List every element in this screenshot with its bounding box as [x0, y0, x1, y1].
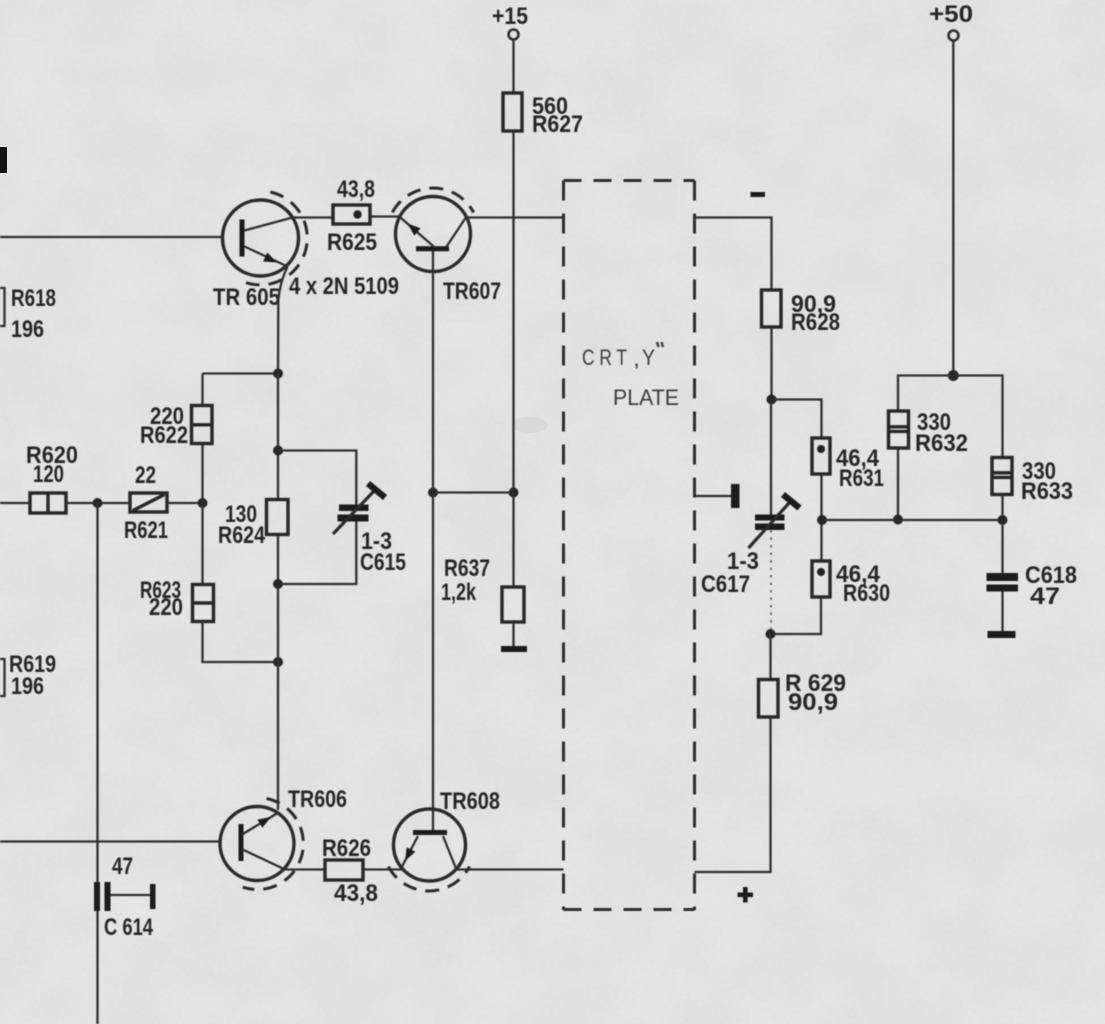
svg-text:C R T: C R T	[582, 345, 627, 370]
wire R620 to R621	[66, 502, 130, 504]
transistor TR605	[213, 192, 307, 311]
wire R630 bottom to node 634	[766, 597, 822, 639]
node +15 supply terminal	[492, 3, 528, 40]
svg-text:+15: +15	[492, 3, 528, 30]
wire TR608 to CRT box bottom	[456, 868, 564, 870]
transistor TR606	[220, 786, 347, 890]
resistor R623 220	[140, 577, 214, 622]
wire R632 to node row520	[893, 448, 903, 525]
capacitor C618 47	[987, 562, 1078, 610]
svg-text:TR 605: TR 605	[213, 284, 280, 311]
wire TR606 emitter to R626	[284, 868, 325, 870]
svg-text:43,8: 43,8	[337, 176, 375, 203]
svg-text:R621: R621	[124, 517, 168, 544]
resistor R633 330	[992, 458, 1073, 506]
plate tap bar inside box row	[695, 484, 740, 508]
svg-text:R632: R632	[915, 430, 968, 457]
node junction at x97	[93, 498, 103, 508]
svg-text:R618: R618	[11, 285, 56, 312]
scan artifact blob at left edge	[0, 147, 7, 173]
wire C617 down faint	[770, 530, 772, 634]
svg-text:R633: R633	[1021, 478, 1073, 505]
resistor R630 46,4	[812, 561, 890, 607]
svg-text:47: 47	[1030, 583, 1060, 610]
ground below C618	[988, 631, 1016, 638]
node junction R627/R637/TR607 link	[428, 488, 519, 498]
wire R631 to node row520	[817, 474, 827, 561]
svg-text:TR608: TR608	[440, 788, 500, 815]
svg-text:R637: R637	[444, 555, 490, 582]
wire node x97 down to bottom edge	[96, 503, 98, 1024]
svg-text:TR606: TR606	[288, 786, 347, 813]
resistor R632 330	[889, 409, 969, 457]
capacitor C617 1-3 trimmer	[701, 495, 800, 599]
wire R623 bottom to main vertical	[203, 622, 284, 668]
wire C615 branch	[278, 451, 356, 585]
wire node to R637	[512, 493, 514, 588]
wire top row to R632 and R633	[898, 376, 1003, 458]
capacitor C614 47	[94, 853, 156, 941]
resistor R625 43,8	[327, 176, 377, 256]
resistor R631 46,4	[812, 438, 884, 492]
minus polarity mark	[751, 192, 766, 197]
transistor TR607	[392, 188, 501, 305]
svg-text:4 x 2N 5109: 4 x 2N 5109	[289, 273, 399, 300]
svg-text:C617: C617	[701, 571, 750, 598]
resistor R619 cut off at edge	[0, 651, 56, 700]
CRT Y plate dashed box	[564, 181, 695, 911]
resistor R622 220	[140, 403, 212, 449]
svg-text:TR607: TR607	[443, 278, 501, 305]
wire CRT box to R628	[695, 218, 772, 291]
svg-text:R626: R626	[322, 835, 371, 862]
svg-text:,: ,	[633, 346, 640, 371]
wire R629 to CRT box bottom right	[695, 717, 771, 872]
wire TR605 emitter down	[278, 267, 288, 374]
resistor R628 90,9	[762, 290, 841, 336]
wire C618 to ground	[1001, 592, 1003, 632]
svg-text:120: 120	[33, 461, 64, 488]
wire R637 to ground	[512, 622, 514, 646]
wire node to R629	[769, 634, 771, 680]
resistor R621 22 variable	[124, 462, 168, 544]
resistor R627 560	[503, 93, 583, 138]
wire TR605 collector to R625	[293, 216, 334, 218]
svg-text:R630: R630	[843, 580, 890, 607]
svg-text:220: 220	[149, 594, 183, 621]
label CRT Y PLATE	[582, 342, 679, 410]
svg-text:1,2k: 1,2k	[441, 579, 476, 606]
wire R625 to TR607	[370, 215, 400, 217]
svg-text:47: 47	[112, 853, 133, 880]
resistor R629 90,9	[759, 670, 847, 717]
wire R621 to node x202	[167, 498, 208, 508]
plus polarity mark	[738, 887, 754, 903]
resistor R624 130	[218, 500, 288, 550]
wire input to TR605 base	[0, 236, 223, 238]
wire input row to R620	[0, 502, 30, 504]
svg-text:C615: C615	[360, 549, 406, 576]
transistor TR608	[388, 788, 500, 891]
wire +50 down to node	[948, 41, 959, 381]
svg-text:R622: R622	[140, 422, 188, 449]
wire R626 to TR608	[363, 868, 404, 870]
ground below R637	[501, 646, 527, 652]
wire R633 to node row520	[998, 495, 1008, 526]
capacitor C615 1-3 trimmer	[333, 484, 406, 577]
svg-text:22: 22	[135, 462, 156, 489]
wire R628 to node	[767, 327, 777, 405]
wire node to C618	[1001, 520, 1003, 573]
resistor R637 1,2k	[441, 555, 524, 622]
wire R627 down to node at y492	[512, 131, 514, 493]
svg-text:Y: Y	[642, 345, 655, 370]
wire main vertical TR605 to TR606	[277, 374, 279, 811]
svg-text:PLATE: PLATE	[613, 385, 679, 410]
svg-text:R625: R625	[327, 229, 377, 256]
wire node to R631	[772, 400, 822, 439]
resistor R618 cut off at edge	[0, 285, 56, 343]
wire node x202 up through R622 branch	[201, 374, 203, 504]
svg-text:+50: +50	[929, 1, 973, 28]
resistor R626 43,8	[322, 835, 378, 907]
svg-text:43,8: 43,8	[334, 880, 378, 907]
wire node row 520	[822, 519, 1003, 521]
node junction main/C615 bottom	[273, 579, 283, 589]
svg-text:R624: R624	[218, 522, 266, 549]
resistor R620 120	[26, 442, 78, 513]
svg-text:196: 196	[11, 316, 44, 343]
wire branch top to main vertical	[203, 369, 284, 379]
node +50 supply terminal	[929, 1, 973, 41]
svg-text:R631: R631	[839, 465, 884, 492]
wire TR607 collector to CRT box	[466, 216, 563, 218]
svg-text:C 614: C 614	[104, 914, 153, 941]
label 4 x 2N 5109	[289, 273, 399, 300]
svg-text:R628: R628	[791, 309, 840, 336]
svg-text:196: 196	[11, 673, 44, 700]
svg-text:R627: R627	[532, 111, 583, 138]
svg-text:90,9: 90,9	[788, 689, 838, 716]
node junction main/C615 top	[273, 446, 283, 456]
wire node x202 down through R623	[201, 503, 203, 585]
wire input to TR606 base	[0, 840, 220, 842]
wire TR607 base down to TR608 base	[432, 251, 434, 830]
wire +15 to R627	[512, 40, 514, 93]
wire C617 branch from node	[770, 400, 772, 515]
